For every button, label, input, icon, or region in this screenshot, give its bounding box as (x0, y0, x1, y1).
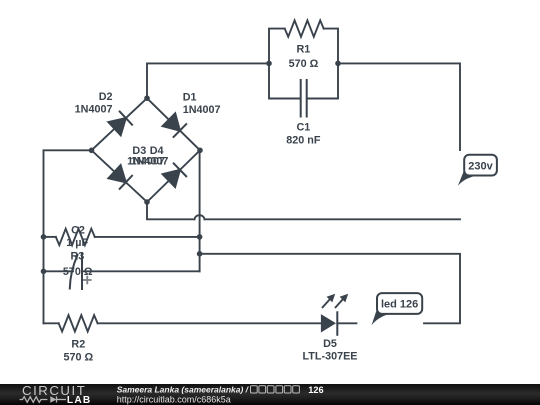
svg-text:1 µF: 1 µF (66, 237, 88, 249)
svg-text:led 126: led 126 (381, 299, 418, 311)
svg-text:Sameera Lanka (sameeralanka) /: Sameera Lanka (sameeralanka) / (117, 385, 250, 395)
svg-text:C2: C2 (71, 225, 85, 237)
svg-text:820 nF: 820 nF (286, 135, 321, 147)
svg-text:http://circuitlab.com/c686k5a: http://circuitlab.com/c686k5a (117, 394, 231, 404)
svg-text:D1: D1 (183, 91, 197, 103)
svg-text:LAB: LAB (67, 395, 92, 405)
svg-text:LTL-307EE: LTL-307EE (303, 351, 358, 363)
svg-text:C1: C1 (296, 122, 310, 134)
svg-text:R3: R3 (70, 251, 84, 263)
svg-text:1N4007: 1N4007 (131, 155, 169, 167)
svg-text:D2: D2 (99, 91, 113, 103)
svg-text:230v: 230v (468, 160, 493, 172)
svg-text:D5: D5 (323, 338, 337, 350)
svg-text:570 Ω: 570 Ω (289, 58, 319, 70)
svg-text:126: 126 (308, 385, 323, 395)
svg-text:570 Ω: 570 Ω (63, 266, 93, 278)
svg-text:R1: R1 (296, 44, 310, 56)
svg-text:R2: R2 (71, 339, 85, 351)
svg-text:570 Ω: 570 Ω (63, 352, 93, 364)
svg-text:1N4007: 1N4007 (75, 104, 113, 116)
svg-text:1N4007: 1N4007 (183, 104, 221, 116)
